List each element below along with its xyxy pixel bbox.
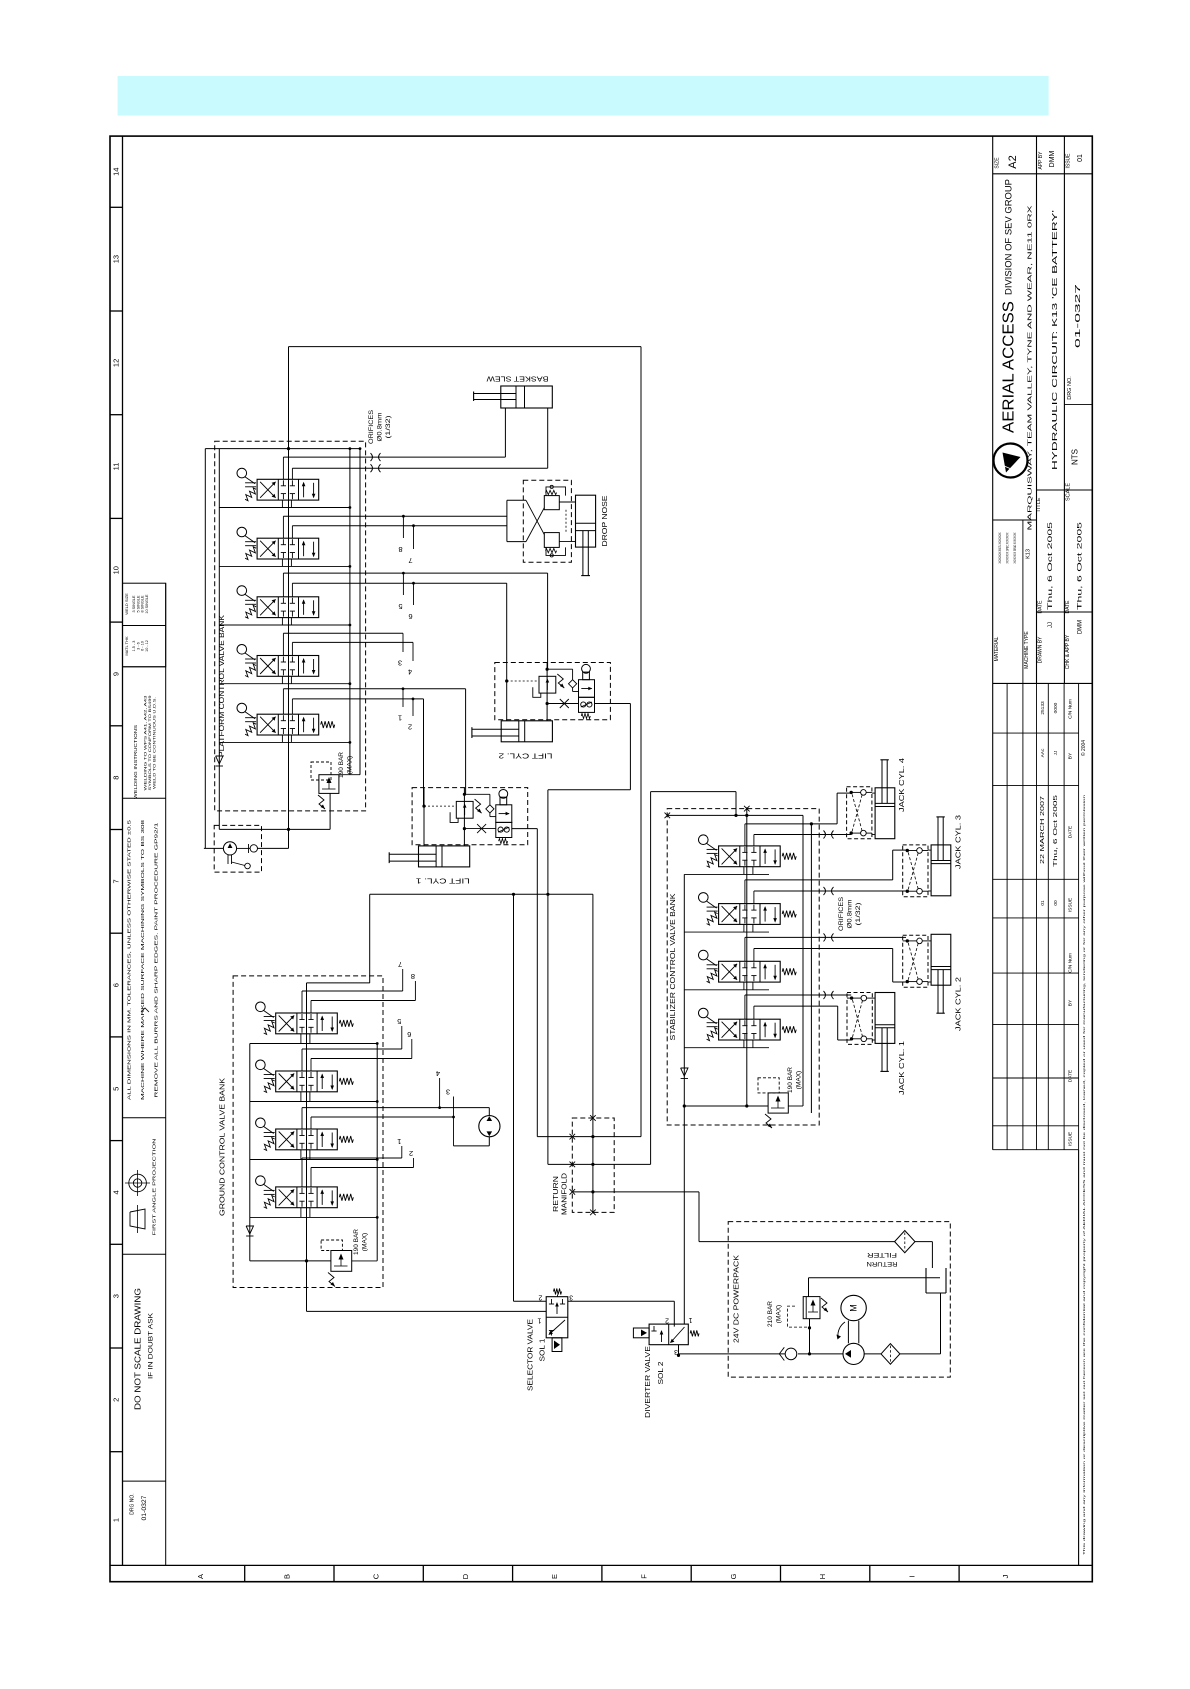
svg-text:(MAX): (MAX) [796, 1071, 803, 1089]
svg-text:ALL DIMENSIONS IN MM. TOLERANC: ALL DIMENSIONS IN MM. TOLERANCES, UNLESS… [127, 819, 132, 1100]
svg-text:SOL 2: SOL 2 [658, 1361, 665, 1384]
svg-text:XXXXXXXX SPEC XXXXXXXX: XXXXXXXX SPEC XXXXXXXX [1006, 532, 1010, 563]
svg-text:2: 2 [408, 723, 412, 732]
svg-text:210 BAR: 210 BAR [767, 1301, 774, 1327]
svg-text:1: 1 [688, 1316, 692, 1323]
svg-text:01: 01 [1077, 154, 1084, 162]
svg-text:K13: K13 [1026, 549, 1032, 559]
svg-text:7: 7 [408, 556, 412, 565]
svg-text:TITLE: TITLE [1036, 497, 1042, 512]
svg-text:24V DC POWERPACK: 24V DC POWERPACK [734, 1255, 741, 1343]
svg-text:WELD TO BE CONTINUOUS U.D.S.: WELD TO BE CONTINUOUS U.D.S. [152, 697, 157, 789]
svg-text:DMM: DMM [1078, 620, 1084, 634]
svg-text:DRG NO.: DRG NO. [1067, 376, 1073, 400]
svg-text:1: 1 [537, 1317, 541, 1324]
svg-text:RETURN: RETURN [553, 1176, 560, 1212]
svg-text:GROUND CONTROL VALVE BANK: GROUND CONTROL VALVE BANK [218, 1078, 227, 1216]
svg-text:D: D [461, 1573, 470, 1579]
svg-text:AAc: AAc [1040, 748, 1046, 757]
svg-text:5: 5 [112, 1087, 121, 1091]
svg-text:IF IN DOUBT ASK: IF IN DOUBT ASK [148, 1312, 155, 1379]
svg-text:WELDING INSTRUCTIONS: WELDING INSTRUCTIONS [133, 725, 139, 799]
svg-text:G: G [729, 1573, 738, 1579]
svg-text:4: 4 [112, 1190, 121, 1194]
svg-text:1: 1 [397, 1137, 401, 1146]
svg-text:B: B [282, 1574, 291, 1579]
svg-text:2: 2 [112, 1398, 121, 1402]
svg-text:M: M [849, 1304, 859, 1312]
svg-text:XXXXXXXX GRAD XXXXXXXX: XXXXXXXX GRAD XXXXXXXX [1013, 532, 1017, 563]
svg-text:J: J [1001, 1574, 1010, 1578]
svg-text:A2: A2 [1007, 155, 1019, 168]
svg-text:13: 13 [112, 255, 121, 263]
svg-text:A: A [196, 1574, 205, 1579]
svg-text:5: 5 [398, 602, 402, 611]
svg-text:25133: 25133 [1040, 701, 1046, 715]
svg-text:3: 3 [398, 659, 402, 668]
svg-text:CHK & APP BY: CHK & APP BY [1065, 634, 1071, 669]
svg-text:Thu, 6 Oct 2005: Thu, 6 Oct 2005 [1053, 795, 1059, 867]
svg-text:© 2004: © 2004 [1080, 740, 1087, 756]
svg-text:DATE: DATE [1065, 600, 1071, 614]
svg-text:JJ: JJ [1053, 750, 1059, 755]
svg-text:JACK CYL. 2: JACK CYL. 2 [956, 977, 963, 1031]
svg-text:LIFT CYL. 2: LIFT CYL. 2 [499, 752, 553, 761]
svg-text:7: 7 [398, 960, 402, 969]
svg-text:C/N Num: C/N Num [1068, 699, 1074, 719]
svg-text:JACK CYL. 1: JACK CYL. 1 [899, 1041, 906, 1095]
svg-text:10 - 12: 10 - 12 [145, 640, 149, 652]
svg-text:C/N Num: C/N Num [1068, 953, 1074, 973]
svg-text:C: C [372, 1573, 381, 1579]
svg-text:ISSUE: ISSUE [1068, 1132, 1074, 1146]
svg-text:01-0327: 01-0327 [1075, 284, 1082, 348]
svg-text:00: 00 [1053, 900, 1059, 906]
svg-text:11: 11 [112, 463, 121, 471]
svg-text:XXXXXXXX MATL XXXXXXXX: XXXXXXXX MATL XXXXXXXX [998, 532, 1002, 563]
svg-text:DIVERTER VALVE: DIVERTER VALVE [645, 1346, 652, 1418]
svg-text:ISSUE: ISSUE [1066, 153, 1072, 169]
svg-text:APP BY: APP BY [1038, 151, 1044, 170]
svg-text:190 BAR: 190 BAR [353, 1229, 360, 1255]
svg-text:DATE: DATE [1038, 600, 1044, 614]
svg-text:Thu, 6 Oct 2005: Thu, 6 Oct 2005 [1047, 521, 1054, 610]
svg-text:01: 01 [1040, 900, 1046, 906]
svg-text:MANIFOLD: MANIFOLD [562, 1173, 569, 1215]
svg-text:REMOVE ALL BURRS AND SHARP EDG: REMOVE ALL BURRS AND SHARP EDGES. PAINT … [153, 821, 158, 1097]
svg-text:DATE: DATE [1068, 1070, 1074, 1082]
svg-text:1: 1 [398, 714, 402, 723]
svg-text:4: 4 [408, 668, 412, 677]
svg-text:MARQUISWAY, TEAM VALLEY, TYNE: MARQUISWAY, TEAM VALLEY, TYNE AND WEAR, … [1028, 205, 1034, 531]
svg-text:MACHINE WHERE MARKED SU: MACHINE WHERE MARKED SURFACE MACHINING S… [140, 819, 145, 1100]
svg-text:DRAWN BY: DRAWN BY [1038, 636, 1044, 663]
svg-text:HYDRAULIC CIRCUIT: K13 'CE BAT: HYDRAULIC CIRCUIT: K13 'CE BATTERY' [1050, 209, 1059, 470]
svg-text:190 BAR: 190 BAR [338, 752, 345, 778]
svg-text:NTS: NTS [1071, 449, 1080, 465]
svg-text:BASKET SLEW: BASKET SLEW [485, 375, 548, 384]
svg-text:ORIFICES: ORIFICES [368, 409, 375, 444]
svg-text:190 BAR: 190 BAR [787, 1067, 794, 1093]
svg-text:8: 8 [112, 776, 121, 780]
svg-text:SCALE: SCALE [1066, 483, 1072, 501]
svg-text:DIVISION OF SEV GROUP: DIVISION OF SEV GROUP [1004, 179, 1015, 295]
svg-text:BY: BY [1068, 752, 1074, 759]
svg-text:Thu, 6 Oct 2005: Thu, 6 Oct 2005 [1077, 521, 1084, 610]
svg-text:Ø0.8mm: Ø0.8mm [847, 900, 854, 929]
svg-text:6: 6 [407, 1030, 411, 1039]
svg-text:SIZE: SIZE [995, 157, 1001, 169]
svg-text:E: E [550, 1574, 559, 1579]
svg-text:(MAX): (MAX) [362, 1233, 369, 1251]
svg-text:8: 8 [398, 545, 402, 554]
svg-text:12: 12 [112, 359, 121, 367]
svg-text:Ø0.8mm: Ø0.8mm [377, 413, 384, 442]
svg-text:14: 14 [112, 168, 121, 176]
svg-text:3: 3 [674, 1348, 678, 1355]
svg-text:(MAX): (MAX) [347, 756, 354, 774]
svg-text:4: 4 [436, 1069, 440, 1078]
svg-text:01-0327: 01-0327 [141, 1495, 148, 1520]
svg-text:This drawing and any informati: This drawing and any information or desc… [1082, 794, 1086, 1555]
svg-text:10 SINGLE: 10 SINGLE [145, 594, 149, 614]
svg-text:(1/32): (1/32) [385, 416, 392, 439]
svg-text:0000: 0000 [1053, 702, 1059, 713]
svg-text:MATL THK: MATL THK [124, 636, 129, 656]
svg-text:SELECTOR VALVE: SELECTOR VALVE [528, 1319, 535, 1391]
svg-text:F: F [640, 1574, 649, 1579]
svg-text:6: 6 [408, 612, 412, 621]
svg-text:(MAX): (MAX) [776, 1305, 783, 1323]
svg-text:STABILIZER CONTROL VALVE BANK: STABILIZER CONTROL VALVE BANK [668, 894, 677, 1041]
svg-text:BY: BY [1068, 999, 1074, 1006]
svg-text:ORIFICES: ORIFICES [838, 896, 845, 931]
svg-text:JACK CYL. 3: JACK CYL. 3 [956, 815, 963, 869]
svg-text:1: 1 [112, 1518, 121, 1522]
svg-text:WELD SIZE: WELD SIZE [124, 593, 129, 615]
svg-text:DMM: DMM [1049, 150, 1056, 167]
svg-text:22 MARCH 2007: 22 MARCH 2007 [1040, 796, 1046, 864]
svg-text:5: 5 [397, 1017, 401, 1026]
svg-text:DO NOT SCALE DRAWING: DO NOT SCALE DRAWING [134, 1288, 143, 1410]
svg-text:9: 9 [112, 672, 121, 676]
svg-text:AERIAL ACCESS: AERIAL ACCESS [1001, 301, 1018, 433]
svg-text:DRG NO.: DRG NO. [130, 1493, 136, 1514]
svg-text:JJ: JJ [1048, 622, 1054, 628]
svg-text:7: 7 [112, 879, 121, 883]
svg-text:10: 10 [112, 566, 121, 574]
svg-text:JACK CYL. 4: JACK CYL. 4 [899, 758, 906, 812]
svg-text:DATE: DATE [1068, 826, 1074, 838]
svg-text:MATERIAL: MATERIAL [994, 636, 1000, 661]
svg-text:(1/32): (1/32) [855, 903, 862, 926]
svg-text:3: 3 [569, 1294, 573, 1301]
svg-text:SOL 1: SOL 1 [540, 1338, 547, 1361]
svg-text:2: 2 [409, 1149, 413, 1158]
svg-text:I: I [908, 1575, 917, 1577]
svg-text:3: 3 [446, 1088, 450, 1097]
svg-text:LIFT CYL. 1: LIFT CYL. 1 [416, 877, 470, 886]
svg-text:RETURN: RETURN [866, 1260, 897, 1267]
svg-text:FIRST ANGLE PROJECTION: FIRST ANGLE PROJECTION [152, 1138, 158, 1236]
svg-text:MACHINE TYPE: MACHINE TYPE [1024, 631, 1030, 669]
svg-text:DROP NOSE: DROP NOSE [602, 495, 609, 546]
svg-text:H: H [818, 1574, 827, 1579]
svg-text:FILTER: FILTER [867, 1251, 897, 1258]
svg-text:ISSUE: ISSUE [1068, 898, 1074, 912]
svg-text:3: 3 [112, 1294, 121, 1298]
svg-text:2: 2 [665, 1317, 669, 1324]
svg-text:8: 8 [411, 972, 415, 981]
svg-text:6: 6 [112, 983, 121, 987]
svg-text:2: 2 [538, 1294, 542, 1301]
svg-text:PLATFORM CONTROL VALVE BANK: PLATFORM CONTROL VALVE BANK [217, 615, 226, 757]
